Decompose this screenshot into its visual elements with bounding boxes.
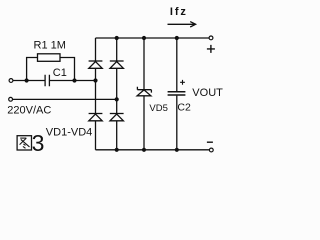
svg-text:VOUT: VOUT [192, 87, 223, 99]
svg-text:C2: C2 [177, 101, 191, 113]
svg-text:220V/AC: 220V/AC [7, 105, 51, 117]
svg-text:Ifz: Ifz [170, 6, 188, 18]
svg-text:VD5: VD5 [149, 103, 167, 114]
svg-text:C1: C1 [53, 67, 67, 79]
svg-text:R1 1M: R1 1M [34, 40, 66, 52]
svg-text:VD1-VD4: VD1-VD4 [46, 126, 92, 138]
svg-text:3: 3 [32, 130, 45, 156]
